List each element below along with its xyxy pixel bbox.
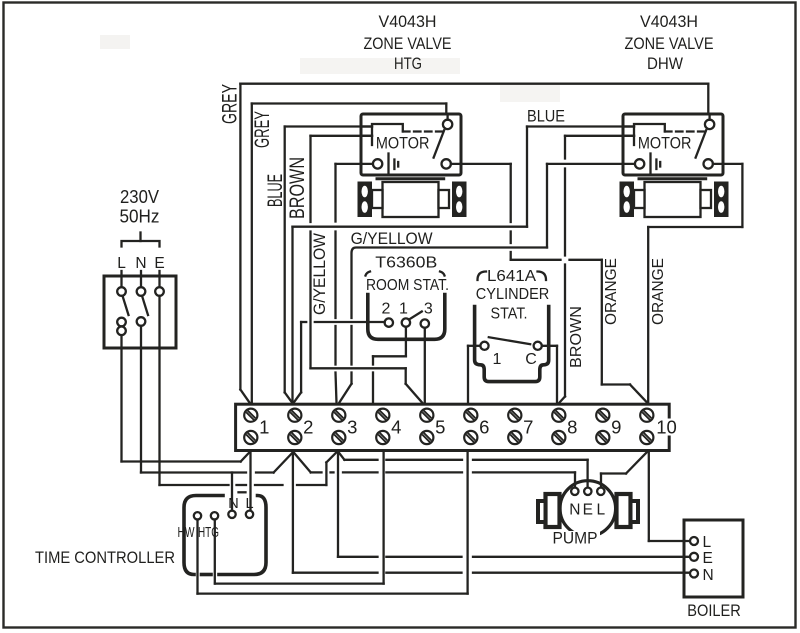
svg-text:ROOM STAT.: ROOM STAT. xyxy=(366,277,449,294)
wire: E run to terminal 3 xyxy=(160,452,337,485)
strip terminal numbers 1-10 xyxy=(259,417,677,438)
svg-text:2: 2 xyxy=(303,417,313,438)
supply L fuse contacts xyxy=(117,318,126,348)
svg-text:4: 4 xyxy=(391,417,401,438)
svg-text:E: E xyxy=(154,255,164,272)
svg-text:BOILER: BOILER xyxy=(687,602,741,620)
wire: controller N up xyxy=(231,473,233,511)
controller HW HTG labels xyxy=(178,525,220,541)
svg-text:BROWN: BROWN xyxy=(568,306,585,368)
svg-text:GREY: GREY xyxy=(219,84,242,124)
wire: room stat 3 to terminal 5 xyxy=(424,328,426,403)
svg-text:TIME CONTROLLER: TIME CONTROLLER xyxy=(35,548,175,567)
wire: boiler N run xyxy=(293,572,690,574)
cylinder stat terminal C xyxy=(534,342,542,350)
pump body circle xyxy=(560,481,616,537)
room stat terminal 2 xyxy=(385,318,393,326)
svg-text:STAT.: STAT. xyxy=(491,306,528,323)
svg-text:5: 5 xyxy=(435,417,445,438)
svg-text:GREY: GREY xyxy=(251,111,274,148)
svg-text:6: 6 xyxy=(479,417,489,438)
DHW switch lever xyxy=(696,130,707,157)
svg-text:BROWN: BROWN xyxy=(286,157,309,219)
DHW terminal cap marks xyxy=(651,154,661,173)
svg-text:230V: 230V xyxy=(120,187,159,207)
wire: terminal2 neutral trunk xyxy=(293,451,311,573)
cylinder stat body xyxy=(475,307,549,382)
wire: controller HTG down xyxy=(214,520,216,584)
room stat terminal 3 xyxy=(421,319,429,327)
wire: grey DHW common xyxy=(240,84,708,403)
supply E terminal xyxy=(155,287,164,296)
label: V4043H ZONE VALVE HTG xyxy=(364,12,452,73)
wire: g/yellow DHW xyxy=(547,164,635,248)
wire: terminal6 to HW line xyxy=(198,451,468,594)
svg-text:E: E xyxy=(703,550,713,567)
wire: g/yellow HTG xyxy=(336,164,373,403)
pump left flange xyxy=(538,494,560,527)
supply N switch blade xyxy=(142,296,148,315)
pump terminal E xyxy=(584,488,591,495)
HTG switch lever xyxy=(434,130,445,157)
HTG valve left union xyxy=(372,190,383,208)
supply L terminal xyxy=(117,287,126,296)
label: V4043H ZONE VALVE DHW xyxy=(625,12,714,73)
svg-text:N: N xyxy=(703,567,714,584)
svg-text:CYLINDER: CYLINDER xyxy=(476,286,550,303)
DHW valve left union xyxy=(634,190,645,208)
svg-text:G/YELLOW: G/YELLOW xyxy=(310,233,329,315)
cylinder stat terminal labels 1 C xyxy=(493,351,537,368)
svg-text:L: L xyxy=(596,502,605,519)
supply N terminal xyxy=(137,287,146,296)
controller L terminal xyxy=(246,511,253,518)
svg-text:3: 3 xyxy=(424,301,433,318)
pump right flange xyxy=(617,494,639,527)
time controller box xyxy=(184,496,266,575)
boiler L E N letters xyxy=(703,534,714,584)
wire: boiler E run xyxy=(338,556,690,558)
svg-text:1: 1 xyxy=(259,417,269,438)
HTG valve left flange xyxy=(358,182,373,218)
wire: N run to terminal 2 xyxy=(141,452,293,472)
svg-text:L641A: L641A xyxy=(487,268,537,285)
svg-text:1: 1 xyxy=(399,301,408,318)
wire: supply N down xyxy=(140,348,142,473)
strip screws and numbers xyxy=(244,409,653,445)
room stat lever xyxy=(410,312,422,320)
wire: brown DHW xyxy=(559,136,634,403)
boiler terminal N xyxy=(690,570,698,578)
wire: terminal3 earth trunk xyxy=(338,451,344,557)
HTG motor box xyxy=(361,114,461,175)
svg-text:BLUE: BLUE xyxy=(527,107,565,126)
labels L N E xyxy=(117,255,164,272)
supply bracket xyxy=(122,233,160,247)
wire: brown HTG xyxy=(311,136,423,403)
wire: terminal10 to boiler L xyxy=(649,451,690,542)
controller N terminal xyxy=(228,511,235,518)
room stat terminal numbers 2 1 3 xyxy=(382,301,433,318)
cylinder stat lever xyxy=(489,337,530,344)
HTG valve body xyxy=(383,182,439,217)
DHW valve left flange xyxy=(620,182,635,218)
DHW valve right flange xyxy=(714,182,729,218)
svg-text:DHW: DHW xyxy=(647,54,683,73)
svg-text:PUMP: PUMP xyxy=(553,530,598,548)
wire: blue HTG xyxy=(285,127,372,404)
svg-text:N: N xyxy=(135,255,146,272)
wire: terminal1 to controller L xyxy=(249,451,251,511)
controller HW terminal xyxy=(194,512,201,519)
DHW coil brown hook xyxy=(623,125,634,127)
HTG valve neck xyxy=(377,177,444,180)
wire: controller HW down xyxy=(196,520,198,594)
supply terminal stubs xyxy=(122,271,160,287)
supply L switch blade xyxy=(123,296,129,315)
HTG switch dashed link xyxy=(403,130,443,132)
HTG valve right union xyxy=(439,190,450,208)
DHW valve right union xyxy=(701,190,712,208)
svg-text:HW: HW xyxy=(178,525,195,541)
boiler terminal L xyxy=(690,537,698,545)
controller N L labels xyxy=(228,492,253,512)
wire: HTG switch common up xyxy=(252,104,446,114)
pump terminal N xyxy=(571,488,578,495)
svg-text:MOTOR: MOTOR xyxy=(638,134,692,153)
svg-text:1: 1 xyxy=(493,351,502,368)
svg-text:7: 7 xyxy=(523,417,533,438)
HTG switch common contact xyxy=(443,114,452,129)
wire: grey HTG common xyxy=(251,104,253,404)
HTG terminal cap marks xyxy=(389,154,399,173)
supply isolator box xyxy=(104,276,176,348)
DHW switch common contact xyxy=(705,114,714,129)
svg-text:ZONE VALVE: ZONE VALVE xyxy=(625,34,714,53)
cylinder stat terminal 1 xyxy=(480,342,488,350)
room stat terminal 1 xyxy=(402,318,410,326)
svg-text:ORANGE: ORANGE xyxy=(603,258,620,325)
room stat bracket xyxy=(368,295,445,340)
HTG coil brown hook xyxy=(361,125,372,127)
svg-text:V4043H: V4043H xyxy=(379,12,437,31)
scan smudge xyxy=(100,35,130,49)
wire: cyl stat C to terminal 8 xyxy=(542,346,557,403)
wire: g/yellow trunk xyxy=(339,248,547,404)
wire: blue DHW xyxy=(293,127,635,404)
svg-text:T6360B: T6360B xyxy=(375,255,437,272)
room stat labels xyxy=(366,255,450,295)
svg-text:HTG: HTG xyxy=(394,54,422,73)
svg-text:50Hz: 50Hz xyxy=(120,207,160,227)
DHW valve neck xyxy=(639,177,706,180)
wire: orange HTG xyxy=(451,164,648,403)
svg-text:V4043H: V4043H xyxy=(640,12,698,31)
supply N lower contact xyxy=(137,317,146,348)
svg-text:8: 8 xyxy=(567,417,577,438)
scan smudge xyxy=(500,84,560,102)
wire: pump N run xyxy=(311,472,575,487)
controller HTG terminal xyxy=(211,512,218,519)
wire: supply L down xyxy=(120,348,122,462)
HTG motor coil xyxy=(372,124,403,145)
boiler box xyxy=(684,520,743,597)
wire: pump L run xyxy=(601,452,648,488)
svg-text:MOTOR: MOTOR xyxy=(376,134,430,153)
wire: orange DHW xyxy=(648,164,742,403)
svg-text:2: 2 xyxy=(382,301,391,318)
DHW switch dashed link xyxy=(665,130,705,132)
DHW motor box xyxy=(623,114,723,175)
svg-text:N: N xyxy=(569,502,580,519)
DHW motor coil xyxy=(634,124,665,145)
svg-text:3: 3 xyxy=(347,417,357,438)
HTG motor earth terminal xyxy=(373,159,382,168)
strip white gap for 10 xyxy=(656,419,678,436)
HTG switch NO contact xyxy=(442,159,451,168)
wire: terminal4 to HTG line xyxy=(215,451,384,584)
svg-text:BLUE: BLUE xyxy=(264,174,287,207)
terminal strip xyxy=(236,404,670,450)
svg-text:G/YELLOW: G/YELLOW xyxy=(351,230,433,248)
svg-text:N: N xyxy=(228,496,238,512)
wire: room stat 2 to N xyxy=(293,322,384,403)
HTG valve right flange xyxy=(452,182,467,218)
supply E through wire xyxy=(158,296,160,348)
svg-text:L: L xyxy=(117,255,126,272)
wire: pump E run xyxy=(344,460,587,488)
pump N E L letters xyxy=(569,502,605,519)
DHW motor earth terminal xyxy=(635,159,644,168)
wire: cyl stat 1 to terminal 6 xyxy=(468,346,480,403)
wire: L run to terminal 1 xyxy=(122,452,250,461)
svg-text:E: E xyxy=(583,502,593,519)
svg-text:9: 9 xyxy=(611,417,621,438)
svg-text:ZONE VALVE: ZONE VALVE xyxy=(364,34,452,53)
DHW switch NO contact xyxy=(704,159,713,168)
wire: supply E down xyxy=(158,348,160,485)
cylinder stat labels xyxy=(476,268,550,323)
svg-text:C: C xyxy=(525,351,537,368)
svg-text:L: L xyxy=(703,534,712,551)
scan smudge xyxy=(300,58,460,74)
DHW valve body xyxy=(645,182,701,217)
pump terminal L xyxy=(597,488,604,495)
boiler terminal E xyxy=(690,553,698,561)
label: PUMP xyxy=(550,530,600,548)
wire: room stat 1 to terminal 4 xyxy=(373,327,406,403)
svg-text:ORANGE: ORANGE xyxy=(650,258,667,325)
svg-text:10: 10 xyxy=(656,417,677,438)
label: 230V 50Hz supply xyxy=(120,187,160,227)
